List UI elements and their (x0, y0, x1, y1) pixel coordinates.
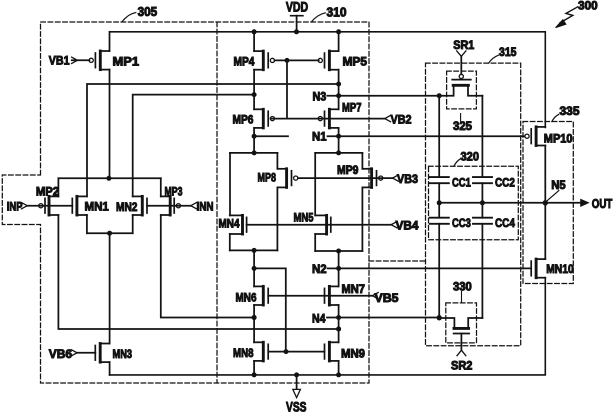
svg-text:N1: N1 (312, 130, 327, 144)
svg-text:SR1: SR1 (453, 38, 474, 52)
svg-text:MP5: MP5 (343, 55, 368, 69)
svg-text:VB6: VB6 (49, 347, 73, 361)
svg-text:335: 335 (560, 104, 580, 118)
svg-text:VB5: VB5 (375, 291, 399, 305)
svg-text:325: 325 (453, 119, 472, 133)
svg-text:N4: N4 (312, 311, 326, 325)
svg-text:CC4: CC4 (495, 216, 515, 230)
svg-text:VB3: VB3 (397, 172, 418, 186)
svg-text:CC3: CC3 (452, 216, 471, 230)
svg-text:CC2: CC2 (495, 176, 515, 190)
svg-text:OUT: OUT (592, 197, 613, 211)
svg-text:MP4: MP4 (234, 55, 255, 69)
svg-text:330: 330 (453, 280, 472, 294)
svg-text:SR2: SR2 (451, 359, 473, 373)
svg-text:MN2: MN2 (116, 200, 138, 214)
svg-text:MN3: MN3 (113, 347, 133, 361)
svg-text:VB1: VB1 (49, 54, 70, 68)
svg-text:CC1: CC1 (452, 176, 471, 190)
svg-text:N2: N2 (312, 262, 327, 276)
svg-text:MN10: MN10 (546, 262, 574, 276)
svg-text:MP8: MP8 (258, 171, 277, 185)
svg-text:N3: N3 (313, 90, 327, 104)
svg-text:INN: INN (197, 200, 214, 214)
svg-text:300: 300 (578, 0, 598, 13)
svg-text:MN4: MN4 (219, 216, 240, 230)
svg-text:MN6: MN6 (236, 291, 257, 305)
svg-text:320: 320 (461, 150, 480, 164)
svg-text:VB4: VB4 (396, 219, 419, 233)
svg-text:MP10: MP10 (544, 132, 573, 146)
svg-text:MN1: MN1 (85, 200, 110, 214)
svg-text:MN7: MN7 (342, 282, 366, 296)
svg-text:310: 310 (327, 6, 347, 20)
svg-text:VSS: VSS (286, 399, 307, 413)
svg-text:305: 305 (138, 5, 158, 19)
svg-text:MP7: MP7 (342, 100, 362, 114)
svg-text:315: 315 (499, 45, 517, 59)
svg-text:N5: N5 (551, 178, 566, 192)
svg-text:VB2: VB2 (391, 113, 412, 127)
svg-text:MN5: MN5 (294, 210, 314, 224)
svg-text:INP: INP (7, 200, 23, 214)
svg-text:MP1: MP1 (113, 55, 140, 69)
svg-text:MN8: MN8 (233, 346, 254, 360)
svg-text:MP9: MP9 (337, 163, 359, 177)
svg-text:VDD: VDD (286, 0, 308, 14)
svg-text:MP2: MP2 (36, 185, 59, 199)
svg-text:MP6: MP6 (233, 113, 254, 127)
svg-text:MN9: MN9 (341, 346, 365, 360)
svg-text:MP3: MP3 (165, 185, 183, 199)
